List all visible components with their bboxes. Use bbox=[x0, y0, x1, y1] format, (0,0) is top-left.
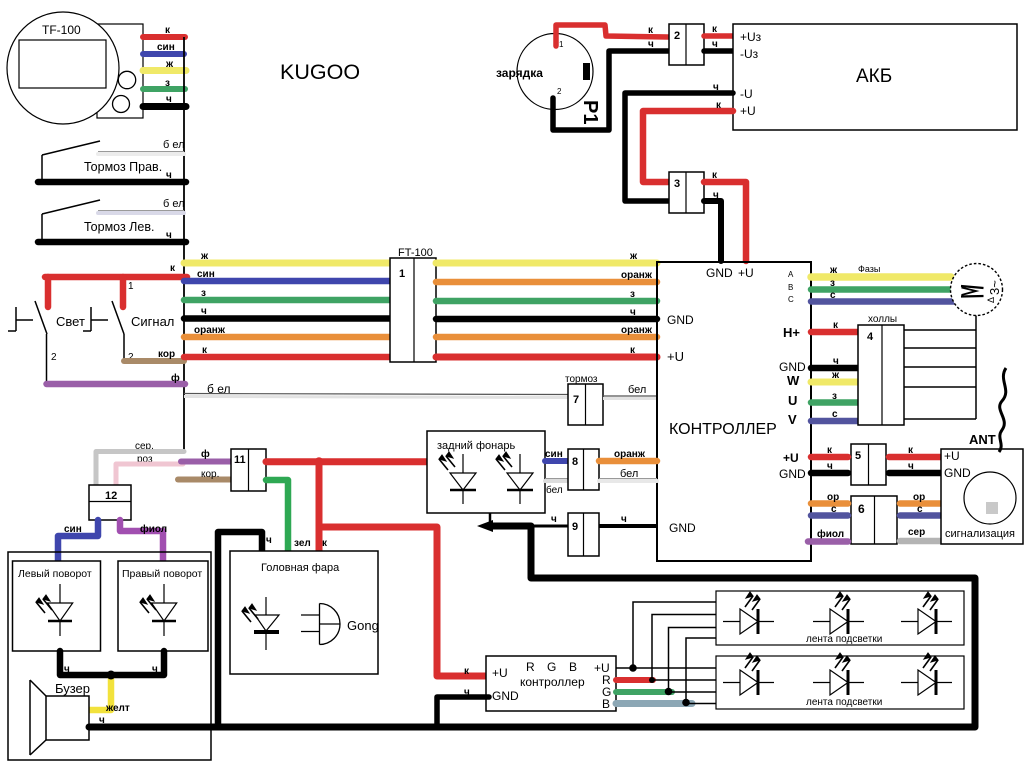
svg-text:2: 2 bbox=[557, 87, 562, 96]
svg-text:ч: ч bbox=[908, 461, 914, 472]
svg-text:7: 7 bbox=[573, 394, 579, 406]
alarm siren bbox=[964, 472, 1016, 524]
wire phase A (yellow) bbox=[811, 273, 951, 281]
wire ор (orange) controller to connector 6 bbox=[811, 500, 848, 507]
connector 9 bbox=[568, 513, 599, 556]
svg-text:B: B bbox=[602, 697, 610, 711]
left turn box Левый поворот bbox=[13, 561, 101, 651]
svg-text:бел: бел bbox=[620, 468, 638, 480]
svg-text:з: з bbox=[201, 288, 206, 299]
LED strip box 1 лента подсветки bbox=[716, 591, 964, 645]
switch Сигнал bbox=[90, 307, 92, 331]
wire оранж (orange) connector 8 to controller bbox=[599, 458, 657, 465]
LED rear 1 bbox=[462, 454, 464, 504]
connector 12 bbox=[89, 485, 131, 520]
wire кор (brown) bus to connector 11 bbox=[178, 477, 231, 483]
svg-text:-Uз: -Uз bbox=[740, 47, 759, 61]
svg-text:Левый поворот: Левый поворот bbox=[18, 568, 92, 580]
svg-text:холлы: холлы bbox=[868, 314, 897, 325]
strip1 LED 2 bbox=[813, 621, 864, 623]
wire зел (green) connector 11 to headlight bbox=[266, 480, 288, 551]
svg-text:с: с bbox=[832, 409, 838, 420]
svg-text:сигнализация: сигнализация bbox=[945, 528, 1015, 540]
svg-text:9: 9 bbox=[572, 521, 578, 533]
wire ч (black) left turn ground bbox=[60, 651, 111, 675]
svg-text:ч: ч bbox=[648, 39, 654, 50]
svg-text:с: с bbox=[917, 504, 923, 515]
svg-text:Свет: Свет bbox=[56, 314, 85, 329]
зарядка key bar bbox=[583, 63, 590, 80]
headlight ground wire bbox=[218, 532, 262, 727]
wire желт (yellow) buzzer bbox=[89, 678, 111, 710]
svg-text:-U: -U bbox=[740, 87, 753, 101]
wire к connector 2 to АКБ +Uз bbox=[704, 33, 733, 39]
svg-text:ч: ч bbox=[64, 664, 70, 675]
net R RGB output bbox=[616, 677, 653, 683]
wire black АКБ -U to connector 3 bbox=[625, 93, 733, 201]
wire ч (black) right brake bbox=[38, 179, 186, 186]
motor to hall sensor bus bbox=[975, 316, 977, 420]
svg-text:оранж: оранж bbox=[621, 270, 653, 281]
label Р1 bbox=[579, 100, 601, 124]
wire black connector 3 to controller GND bbox=[704, 201, 721, 261]
wire ч connector 2 to АКБ -Uз bbox=[704, 48, 733, 54]
strip2 LED 3 bbox=[901, 682, 952, 684]
display unit TF-100 round face bbox=[7, 12, 119, 124]
LED left turn bbox=[59, 584, 61, 636]
svg-text:+U: +U bbox=[738, 266, 754, 280]
svg-text:ор: ор bbox=[913, 492, 925, 503]
svg-text:ч: ч bbox=[713, 82, 719, 93]
svg-text:бел: бел bbox=[628, 384, 646, 396]
TF-100 button 1 bbox=[118, 71, 135, 88]
svg-text:ж: ж bbox=[200, 251, 209, 262]
wire red connector 3 to controller +U bbox=[704, 182, 746, 261]
svg-text:ч: ч bbox=[152, 664, 158, 675]
svg-text:W: W bbox=[787, 373, 800, 388]
svg-text:+U: +U bbox=[492, 666, 508, 680]
wire бел (white) connector 7 to controller bbox=[603, 395, 657, 397]
strip2 LED 1 bbox=[723, 682, 774, 684]
wire син (blue) bus to FT-100 bbox=[184, 278, 390, 285]
LED right turn bbox=[163, 584, 165, 636]
svg-text:B: B bbox=[569, 660, 577, 674]
svg-text:Головная фара: Головная фара bbox=[261, 562, 340, 574]
connector 5 bbox=[851, 444, 886, 485]
wire син (blue) TF-100 bbox=[143, 51, 184, 57]
svg-text:контроллер: контроллер bbox=[520, 675, 585, 689]
wire ж (yellow) bus to FT-100 bbox=[184, 260, 390, 267]
svg-text:ж: ж bbox=[629, 251, 638, 262]
svg-text:Правый поворот: Правый поворот bbox=[122, 568, 202, 580]
svg-text:ор: ор bbox=[827, 492, 839, 503]
wire бел (white) left brake bbox=[98, 210, 184, 212]
svg-text:з: з bbox=[630, 289, 635, 300]
wire к (red) TF-100 bbox=[143, 34, 185, 40]
TF-100 screen bbox=[19, 40, 106, 88]
right turn box Правый поворот bbox=[118, 561, 208, 651]
svg-text:1: 1 bbox=[128, 281, 134, 292]
svg-text:Тормоз Лев.: Тормоз Лев. bbox=[84, 220, 154, 234]
wire red АКБ +U to connector 3 bbox=[643, 111, 733, 182]
svg-text:Сигнал: Сигнал bbox=[131, 314, 174, 329]
wire ч (black) TF-100 bbox=[143, 103, 186, 110]
svg-text:6: 6 bbox=[858, 502, 865, 516]
wire ч (black) connector 5 to alarm bbox=[889, 470, 941, 477]
svg-text:сер: сер bbox=[908, 527, 925, 538]
svg-text:R: R bbox=[526, 660, 535, 674]
wire з (green) TF-100 bbox=[143, 86, 185, 92]
svg-text:3: 3 bbox=[674, 178, 680, 190]
svg-text:GND: GND bbox=[779, 467, 806, 481]
svg-text:оранж: оранж bbox=[621, 325, 653, 336]
svg-text:лента подсветки: лента подсветки bbox=[806, 634, 882, 645]
svg-text:КОНТРОЛЛЕР: КОНТРОЛЛЕР bbox=[669, 421, 777, 438]
svg-text:8: 8 bbox=[572, 456, 578, 468]
svg-text:желт: желт bbox=[105, 703, 130, 714]
svg-text:5: 5 bbox=[855, 450, 861, 462]
wire ф (purple) bus to connector 11 bbox=[181, 459, 231, 465]
wire ч (black) junction to connector 9 bbox=[490, 525, 568, 528]
svg-text:Бузер: Бузер bbox=[55, 681, 90, 696]
net +U RGB output bbox=[616, 667, 716, 669]
svg-text:+U: +U bbox=[740, 104, 756, 118]
svg-text:+U: +U bbox=[667, 349, 684, 364]
svg-text:1: 1 bbox=[399, 268, 405, 280]
svg-text:ч: ч bbox=[827, 461, 833, 472]
wire оранж (orange) bus to FT-100 bbox=[184, 334, 390, 341]
svg-text:б ел: б ел bbox=[163, 198, 185, 210]
junction bbox=[107, 671, 116, 680]
wire red feed down bbox=[319, 462, 489, 676]
wire с (blue) controller to connector 6 bbox=[811, 512, 848, 519]
svg-text:фиол: фиол bbox=[817, 528, 844, 540]
svg-text:ч: ч bbox=[630, 307, 636, 318]
svg-text:син: син bbox=[157, 42, 175, 53]
net B RGB output bbox=[616, 700, 692, 707]
svg-text:Тормоз Прав.: Тормоз Прав. bbox=[84, 160, 162, 174]
svg-text:ч: ч bbox=[713, 190, 719, 201]
connector 3 bbox=[669, 172, 704, 213]
svg-text:FT-100: FT-100 bbox=[398, 247, 433, 259]
wire ж (yellow) TF-100 bbox=[143, 67, 186, 74]
wire ж (yellow) FT-100 to controller bbox=[436, 260, 657, 267]
svg-text:U: U bbox=[788, 393, 797, 408]
svg-text:+U: +U bbox=[944, 449, 960, 463]
svg-text:зарядка: зарядка bbox=[496, 66, 543, 80]
wire к (red) FT-100 to controller +U bbox=[436, 354, 657, 361]
svg-text:ANT: ANT bbox=[969, 432, 996, 447]
svg-text:фиол: фиол bbox=[140, 523, 167, 535]
svg-text:с: с bbox=[830, 290, 836, 301]
svg-text:С: С bbox=[788, 295, 794, 304]
svg-text:ч: ч bbox=[833, 356, 839, 367]
svg-text:GND: GND bbox=[492, 689, 519, 703]
wire бел (white) right brake bbox=[98, 151, 184, 153]
svg-text:Фазы: Фазы bbox=[858, 264, 880, 274]
svg-text:Gong: Gong bbox=[347, 618, 379, 633]
turn signal outer box bbox=[8, 552, 211, 760]
svg-text:кор: кор bbox=[158, 349, 175, 360]
svg-text:ч: ч bbox=[166, 94, 172, 105]
wire red drop to Сигнал pin 1 bbox=[120, 277, 127, 307]
strip2 LED 2 bbox=[813, 682, 864, 684]
svg-text:кор.: кор. bbox=[201, 469, 219, 480]
svg-text:GND: GND bbox=[669, 521, 696, 535]
svg-text:H+: H+ bbox=[783, 325, 800, 340]
svg-text:ф: ф bbox=[201, 448, 210, 460]
display unit TF-100 body bbox=[97, 24, 143, 118]
wire black charger to connector 2 bbox=[553, 51, 668, 130]
svg-text:ч: ч bbox=[166, 230, 172, 241]
wire син (blue) connector 12 to left turn bbox=[58, 520, 98, 561]
svg-text:ч: ч bbox=[621, 514, 627, 525]
svg-text:12: 12 bbox=[105, 490, 117, 502]
svg-text:KUGOO: KUGOO bbox=[280, 60, 360, 84]
svg-text:2: 2 bbox=[51, 352, 57, 363]
switch Свет bbox=[15, 307, 17, 331]
wire red drop to Свет pin 1 bbox=[45, 277, 52, 307]
junction arrow bbox=[477, 520, 493, 532]
wire ч (black) FT-100 to controller GND bbox=[436, 316, 657, 323]
svg-text:G: G bbox=[547, 660, 556, 674]
svg-text:GND: GND bbox=[779, 360, 806, 374]
alarm box сигнализация bbox=[941, 449, 1023, 544]
wire ор (orange) connector 6 to alarm bbox=[900, 500, 943, 507]
svg-text:ж: ж bbox=[831, 370, 840, 381]
thick ground loop bbox=[89, 526, 975, 727]
motor М 3~ bbox=[951, 264, 1003, 316]
svg-text:А: А bbox=[788, 270, 794, 279]
wire оранж (orange) FT-100 to controller 2 bbox=[436, 334, 657, 341]
svg-text:АКБ: АКБ bbox=[856, 66, 892, 87]
battery АКБ bbox=[733, 24, 1017, 130]
horn Gong bbox=[319, 604, 321, 645]
wire фиол (purple) connector 12 to right turn bbox=[120, 520, 163, 561]
RGB controller box bbox=[486, 656, 616, 711]
wire ч (black) bus to FT-100 bbox=[184, 315, 390, 322]
svg-text:ч: ч bbox=[551, 514, 557, 525]
svg-text:ч: ч bbox=[166, 170, 172, 181]
svg-text:б ел: б ел bbox=[163, 139, 185, 151]
svg-text:В: В bbox=[788, 283, 793, 292]
wire кор (brown) signal switch bbox=[124, 358, 184, 364]
wire ч (black) left brake bbox=[38, 239, 186, 246]
LED rear 2 bbox=[519, 454, 521, 504]
svg-text:с: с bbox=[831, 504, 837, 515]
svg-text:GND: GND bbox=[944, 466, 971, 480]
svg-text:ф: ф bbox=[171, 372, 180, 384]
svg-text:TF-100: TF-100 bbox=[42, 23, 81, 37]
svg-text:зел: зел bbox=[294, 538, 311, 549]
wire к (red) connector 5 to alarm bbox=[889, 454, 941, 461]
wire з (green) FT-100 to controller bbox=[436, 298, 657, 305]
wire к (red) switch feed bbox=[45, 274, 187, 281]
svg-text:ч: ч bbox=[712, 39, 718, 50]
svg-text:син: син bbox=[545, 449, 563, 460]
charge socket зарядка bbox=[517, 34, 593, 110]
controller КОНТРОЛЛЕР bbox=[657, 262, 811, 561]
svg-text:лента подсветки: лента подсветки bbox=[806, 697, 882, 708]
wire phase C (blue-violet) bbox=[811, 298, 955, 305]
headlight box Головная фара bbox=[230, 551, 378, 674]
svg-text:Δ: Δ bbox=[986, 297, 996, 303]
wire ч (black) connector 9 to controller GND bbox=[599, 524, 657, 528]
main harness bus bbox=[183, 37, 185, 452]
svg-text:ч: ч bbox=[201, 306, 207, 317]
svg-text:3~: 3~ bbox=[987, 280, 1002, 295]
wire с (blue) connector 6 to alarm bbox=[900, 512, 943, 519]
net G RGB output bbox=[616, 689, 672, 695]
brake switch Тормоз Лев. bbox=[41, 214, 43, 242]
wire ф (purple) light switch bbox=[47, 381, 186, 388]
wire ч (black) right turn ground bbox=[111, 651, 164, 675]
svg-text:ч: ч bbox=[266, 535, 272, 546]
svg-text:син: син bbox=[197, 269, 215, 280]
wire red charger to connector 2 bbox=[556, 25, 668, 46]
svg-text:1: 1 bbox=[559, 40, 564, 49]
svg-text:ж: ж bbox=[165, 59, 174, 70]
connector 8 bbox=[568, 449, 599, 490]
TF-100 button 2 bbox=[113, 96, 130, 113]
wire red connector 11 to rear light bbox=[266, 458, 427, 465]
LED headlight bbox=[265, 597, 267, 650]
connector 11 bbox=[231, 449, 266, 491]
svg-text:з: з bbox=[830, 278, 835, 289]
connector 6 bbox=[851, 496, 897, 544]
svg-text:11: 11 bbox=[234, 454, 246, 466]
wire red stub into headlight bbox=[316, 527, 323, 551]
svg-text:4: 4 bbox=[867, 331, 874, 343]
wire син (blue) rear light to connector 8 bbox=[545, 458, 568, 464]
svg-text:син: син bbox=[64, 524, 82, 535]
rear light ground stub bbox=[489, 513, 492, 526]
svg-text:GND: GND bbox=[706, 266, 733, 280]
junction red bbox=[315, 457, 324, 466]
svg-text:ж: ж bbox=[829, 265, 838, 276]
wire бел (white) rear light to connector 8 bbox=[545, 478, 568, 480]
wire бел (white) brake sensor to connector 7 bbox=[184, 394, 568, 395]
wire з (green) bus to FT-100 bbox=[184, 297, 390, 304]
svg-text:з: з bbox=[832, 391, 837, 402]
connector 2 bbox=[669, 24, 704, 65]
strip1 LED 3 bbox=[901, 621, 952, 623]
svg-text:GND: GND bbox=[667, 313, 694, 327]
LED strip box 2 лента подсветки bbox=[716, 656, 964, 709]
svg-text:оранж: оранж bbox=[614, 449, 646, 460]
svg-text:+U: +U bbox=[783, 451, 799, 465]
svg-text:задний фонарь: задний фонарь bbox=[437, 440, 515, 452]
wire phase B (green) bbox=[811, 286, 953, 293]
wire к (red) bus to FT-100 bbox=[184, 354, 390, 361]
svg-text:з: з bbox=[165, 78, 170, 89]
svg-text:2: 2 bbox=[674, 30, 680, 42]
svg-text:V: V bbox=[788, 412, 797, 427]
svg-text:б ел: б ел bbox=[207, 382, 230, 396]
svg-text:оранж: оранж bbox=[194, 325, 226, 336]
wire оранж (orange) FT-100 to controller bbox=[436, 279, 657, 286]
svg-text:+Uз: +Uз bbox=[740, 30, 762, 44]
brake switch Тормоз Прав. bbox=[41, 155, 43, 182]
svg-text:Р1: Р1 bbox=[579, 100, 601, 124]
rear light box задний фонарь bbox=[427, 431, 545, 513]
strip1 LED 1 bbox=[723, 621, 774, 623]
svg-text:бел: бел bbox=[546, 484, 563, 496]
wire бел (white) connector 8 to controller bbox=[599, 478, 657, 480]
